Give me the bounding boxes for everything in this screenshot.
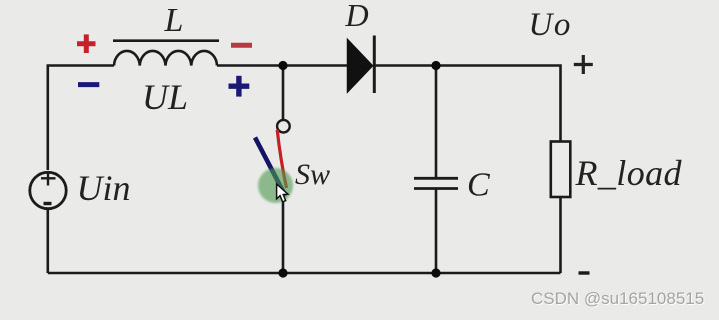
wire switch branch bottom [282,198,285,273]
svg-text:C: C [467,167,490,204]
switch Sw contact circle [277,120,290,133]
svg-text:UL: UL [142,77,188,117]
svg-text:R_load: R_load [575,153,683,193]
resistor R_load body [551,142,571,198]
svg-text:L: L [164,2,184,39]
polarity + (red, inductor left) [77,34,96,53]
polarity - (navy, UL left) [78,82,99,87]
polarity + (navy, UL right) [229,76,250,97]
wire source bottom [46,210,49,274]
switch Sw lever (open, navy) [255,138,286,197]
wire capacitor branch bottom [435,189,438,273]
svg-text:Uo: Uo [529,7,573,43]
polarity + (output top) [574,55,593,74]
svg-text:D: D [344,0,368,33]
inductor L coil [114,51,217,66]
wire resistor branch bottom [559,197,562,273]
wire switch branch top [282,66,285,121]
node B junction dot (capacitor / top rail) [431,61,440,70]
switch Sw highlight circle [258,168,293,203]
node A junction dot (switch / top rail) [278,61,287,70]
wire top rail left segment [48,66,114,171]
node D junction dot (capacitor / bottom rail) [431,268,440,277]
mouse cursor [277,184,288,202]
polarity - (red, inductor right) [231,43,252,48]
watermark [531,289,704,309]
inductor L overline [113,39,219,42]
diode D symbol [348,36,375,94]
wire bottom rail [48,272,561,275]
node C junction dot (switch / bottom rail) [278,268,287,277]
switch Sw red wire [277,130,286,188]
svg-text:Sw: Sw [295,158,330,191]
svg-text:Uin: Uin [77,168,131,208]
wire top rail right segment [374,66,561,142]
capacitor C plates [414,178,458,188]
polarity - (output bottom) [579,271,590,274]
wire capacitor branch top [435,66,438,179]
source Uin symbol [30,172,66,209]
wire top rail middle segment [217,64,350,67]
